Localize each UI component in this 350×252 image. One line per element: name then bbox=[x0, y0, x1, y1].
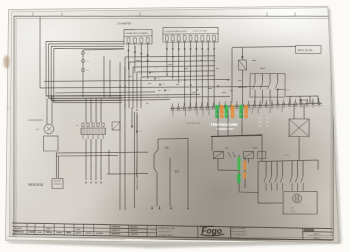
svg-text:M 3~: M 3~ bbox=[291, 211, 297, 213]
svg-text:4.1: 4.1 bbox=[167, 90, 170, 92]
svg-text:K4: K4 bbox=[253, 146, 257, 150]
title table text smudges bbox=[14, 224, 138, 234]
transformer T1 bbox=[288, 104, 311, 161]
svg-text:20: 20 bbox=[277, 108, 279, 110]
svg-text:8: 8 bbox=[207, 111, 208, 113]
green highlighter marks lower bbox=[238, 157, 240, 183]
svg-text:22: 22 bbox=[289, 108, 291, 110]
svg-text:7: 7 bbox=[201, 111, 202, 113]
svg-text:9: 9 bbox=[212, 110, 213, 112]
svg-text:1F: 1F bbox=[76, 125, 79, 127]
svg-text:e2: e2 bbox=[86, 61, 89, 63]
svg-text:1: 1 bbox=[127, 36, 128, 38]
svg-text:25: 25 bbox=[306, 107, 308, 109]
contactor K4 bbox=[243, 146, 266, 159]
terminal block X1 bbox=[124, 29, 152, 44]
horizontal bus wires bbox=[40, 55, 269, 101]
svg-text:4F: 4F bbox=[291, 207, 295, 209]
svg-text:Datum: Datum bbox=[111, 225, 117, 228]
svg-text:12: 12 bbox=[181, 57, 183, 59]
svg-text:PF: PF bbox=[165, 146, 169, 150]
svg-text:SCHALTER LEGRAND: SCHALTER LEGRAND bbox=[125, 32, 148, 35]
svg-text:TERMOSTAT: TERMOSTAT bbox=[216, 127, 235, 131]
svg-text:4B0KW1B: 4B0KW1B bbox=[28, 183, 43, 187]
terminal strip X5 bbox=[170, 98, 323, 114]
svg-text:5: 5 bbox=[189, 111, 190, 113]
hopper outline with K2 PF bbox=[150, 138, 189, 210]
svg-text:2: 2 bbox=[171, 112, 172, 114]
lower contact bus bbox=[257, 160, 320, 204]
svg-text:2: 2 bbox=[134, 36, 135, 38]
title block bbox=[12, 223, 333, 240]
under sheet table edge bbox=[7, 237, 125, 239]
svg-text:Ersatz durch: Ersatz durch bbox=[159, 230, 171, 234]
svg-text:L1: L1 bbox=[266, 117, 270, 120]
svg-text:gez.: gez. bbox=[130, 226, 134, 228]
svg-text:L2: L2 bbox=[258, 121, 262, 124]
svg-text:N: N bbox=[258, 125, 260, 128]
svg-text:4.1: 4.1 bbox=[152, 72, 155, 74]
svg-text:K1: K1 bbox=[225, 146, 229, 150]
auxiliary contacts row 1 bbox=[263, 161, 283, 191]
vertical supply wire on left bbox=[39, 17, 42, 88]
svg-text:21: 21 bbox=[283, 108, 285, 110]
svg-text:15: 15 bbox=[248, 109, 250, 111]
svg-text:3 fi AWF24: 3 fi AWF24 bbox=[117, 21, 131, 25]
circuit breaker F2 bbox=[238, 47, 248, 103]
svg-text:12: 12 bbox=[163, 69, 165, 71]
motor unit M1 box bbox=[258, 191, 318, 215]
svg-text:N: N bbox=[266, 125, 268, 128]
lower-left wiring bbox=[56, 139, 148, 185]
green highlighter marks on terminals bbox=[217, 105, 242, 118]
svg-text:Datum: Datum bbox=[13, 229, 19, 232]
company address cell bbox=[230, 227, 248, 240]
svg-text:2: 2 bbox=[172, 34, 173, 36]
right title cells bbox=[303, 229, 333, 240]
svg-text:13: 13 bbox=[236, 110, 238, 112]
overload relay F1 bbox=[76, 98, 106, 139]
title block tiny texts bbox=[13, 223, 136, 236]
wire stubs below terminal strip bbox=[173, 106, 283, 117]
svg-text:Name: Name bbox=[111, 233, 116, 235]
svg-text:3: 3 bbox=[177, 112, 178, 114]
auxiliary contacts row 2 bbox=[289, 161, 304, 191]
svg-text:26: 26 bbox=[312, 107, 314, 109]
wires below contactors bbox=[218, 155, 258, 193]
svg-text:TEMPERATURE: TEMPERATURE bbox=[210, 123, 238, 127]
svg-text:4: 4 bbox=[184, 34, 185, 36]
wires from strip to contactors bbox=[211, 109, 263, 161]
svg-text:Blatt 1: Blatt 1 bbox=[314, 232, 322, 236]
XPS 12.5a label box bbox=[295, 45, 321, 53]
svg-text:XPS 12.5a: XPS 12.5a bbox=[297, 48, 313, 52]
svg-text:CONDOR MDR PLUS: CONDOR MDR PLUS bbox=[165, 31, 188, 33]
svg-text:KUBO KOMBI: KUBO KOMBI bbox=[193, 30, 208, 32]
heavy control bus bbox=[211, 135, 262, 137]
svg-text:6: 6 bbox=[195, 111, 196, 113]
svg-text:Fogo: Fogo bbox=[201, 226, 222, 236]
tiny wire number labels center bbox=[155, 57, 210, 98]
svg-text:8: 8 bbox=[207, 34, 208, 36]
white terminal numbers column bbox=[258, 117, 270, 128]
svg-text:12: 12 bbox=[157, 96, 159, 98]
svg-text:16: 16 bbox=[253, 109, 255, 111]
Fogo logo bbox=[200, 226, 224, 236]
orange highlighter marks lower bbox=[244, 161, 245, 179]
svg-text:24: 24 bbox=[300, 107, 302, 109]
svg-text:GRUNDFOS: GRUNDFOS bbox=[186, 123, 201, 125]
svg-text:12: 12 bbox=[173, 57, 175, 59]
white numbers on highlighted terminals bbox=[217, 114, 248, 116]
svg-text:27: 27 bbox=[318, 107, 320, 109]
svg-text:4x1: 4x1 bbox=[286, 90, 291, 92]
white-out label TEMPERATURE bbox=[210, 123, 238, 131]
terminal block X2 bbox=[163, 27, 219, 42]
svg-text:19: 19 bbox=[271, 108, 273, 110]
svg-text:23: 23 bbox=[294, 108, 296, 110]
svg-text:5: 5 bbox=[189, 34, 190, 36]
svg-text:DALE 7508 A4Z: DALE 7508 A4Z bbox=[230, 227, 247, 231]
svg-text:4.1: 4.1 bbox=[157, 78, 160, 80]
long vertical bus wires center bbox=[119, 62, 138, 210]
wires from X2 terminals with plug connectors bbox=[166, 41, 217, 106]
relay contact group box bbox=[249, 73, 286, 103]
wires from X1 terminals with plug connectors bbox=[127, 43, 149, 79]
svg-text:4: 4 bbox=[147, 36, 148, 38]
small contact S1 bbox=[112, 122, 120, 130]
svg-text:6: 6 bbox=[195, 34, 196, 36]
svg-text:4: 4 bbox=[183, 111, 184, 113]
svg-text:3: 3 bbox=[178, 34, 179, 36]
svg-text:42.A: 42.A bbox=[284, 154, 290, 157]
svg-text:Name: Name bbox=[45, 231, 50, 233]
svg-text:12: 12 bbox=[155, 67, 157, 69]
svg-text:12: 12 bbox=[166, 96, 168, 98]
svg-text:18: 18 bbox=[265, 109, 267, 111]
svg-text:e1: e1 bbox=[86, 53, 89, 55]
svg-text:K2: K2 bbox=[175, 170, 180, 174]
svg-text:Drehstrom: Drehstrom bbox=[230, 236, 241, 240]
FOGO Nr cell text bbox=[159, 228, 176, 237]
svg-text:Blatt 2: Blatt 2 bbox=[314, 236, 322, 240]
svg-text:9: 9 bbox=[213, 34, 214, 36]
svg-text:3: 3 bbox=[140, 36, 141, 38]
svg-text:7: 7 bbox=[201, 34, 202, 36]
svg-text:L2: L2 bbox=[266, 121, 270, 124]
wires dropping to terminal strip right bbox=[286, 96, 318, 103]
svg-text:IBC-LOAD-E014: IBC-LOAD-E014 bbox=[230, 233, 247, 237]
svg-text:26.04: 26.04 bbox=[111, 230, 116, 232]
wire to XPS box bbox=[230, 47, 298, 104]
wire bundle from terminal block X1 routed left and down bbox=[46, 41, 125, 103]
connector arrows right bbox=[238, 86, 314, 102]
svg-text:4.1: 4.1 bbox=[139, 131, 142, 133]
paper stain on edge bbox=[4, 56, 10, 69]
svg-text:4.1: 4.1 bbox=[162, 84, 165, 86]
svg-text:1: 1 bbox=[166, 34, 167, 36]
svg-text:L1: L1 bbox=[258, 117, 262, 120]
svg-text:12: 12 bbox=[207, 73, 209, 75]
connector circles column bbox=[81, 49, 124, 97]
svg-text:12: 12 bbox=[199, 69, 201, 71]
svg-text:gepr.: gepr. bbox=[65, 230, 70, 233]
svg-text:M-21080-E014: M-21080-E014 bbox=[159, 235, 174, 237]
routing wires center bbox=[124, 56, 216, 108]
brake unit box bbox=[52, 178, 63, 188]
svg-text:1.07.98: 1.07.98 bbox=[28, 231, 35, 233]
svg-text:17: 17 bbox=[259, 109, 261, 111]
junction dots bbox=[119, 56, 244, 111]
svg-text:Bearb.: Bearb. bbox=[130, 229, 137, 232]
svg-text:e3: e3 bbox=[87, 70, 90, 72]
contactor K1 bbox=[213, 146, 235, 159]
meter G1 bbox=[28, 96, 58, 151]
svg-text:FOGO Nr. 114: FOGO Nr. 114 bbox=[159, 228, 176, 230]
orange highlighter marks on terminals bbox=[221, 105, 246, 118]
scattered tiny labels bbox=[128, 59, 267, 104]
connector arrows with wire labels bbox=[130, 72, 170, 134]
svg-text:1B: 1B bbox=[36, 129, 39, 131]
